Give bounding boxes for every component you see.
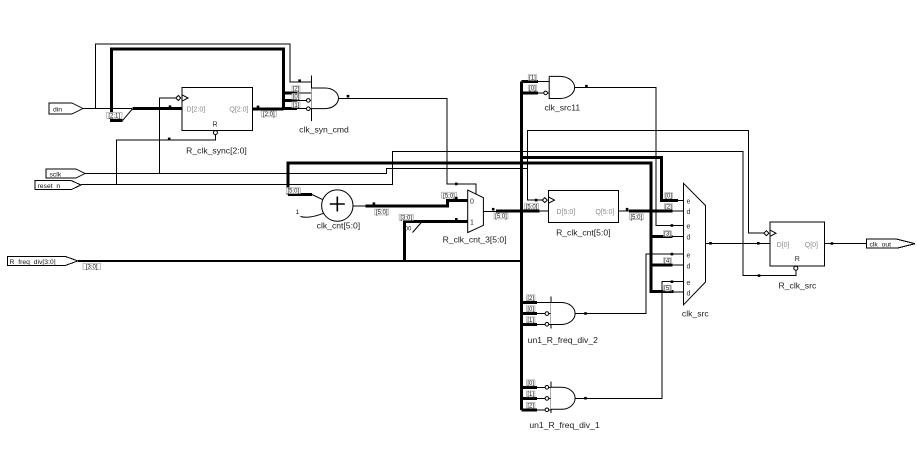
wire splitter bit taps into clk_syn_cmd bbox=[297, 93, 311, 109]
wire sclk branch to R_clk_src clock bbox=[527, 130, 764, 233]
svg-text:clk_cnt[5:0]: clk_cnt[5:0] bbox=[317, 221, 360, 231]
input port reset_n bbox=[35, 181, 81, 190]
AND gate clk_src11 bbox=[544, 76, 581, 112]
wire zero-pad slash at R_freq_div bbox=[413, 221, 424, 233]
tag [2] clk_syn_cmd input bbox=[292, 86, 300, 93]
tag [5:0] mux input 0 bbox=[442, 192, 457, 199]
wire R_clk_cnt Q thin stub bbox=[619, 210, 630, 212]
svg-text:[0]: [0] bbox=[293, 95, 300, 101]
svg-text:clk_out: clk_out bbox=[870, 241, 892, 248]
svg-text:reset_n: reset_n bbox=[38, 183, 61, 190]
flip-flop R_clk_sync[2:0] bbox=[176, 88, 253, 156]
bus taps un1_R_freq_div_1 bbox=[522, 387, 538, 410]
svg-text:d: d bbox=[687, 235, 691, 242]
tag [3:0] at R_freq_div port bbox=[83, 263, 101, 270]
wire clk_src11 output to clk_src e2 bbox=[575, 87, 684, 225]
wire reset branch to R_clk_sync R pin bbox=[116, 135, 215, 185]
tag [5:0] R_clk_cnt Q bbox=[629, 214, 643, 221]
svg-text:R: R bbox=[795, 256, 800, 263]
bus R_clk_cnt feedback to adder and clk_src taps bbox=[288, 163, 674, 292]
svg-text:d: d bbox=[687, 263, 691, 270]
tag [4] clk_src d3 bbox=[664, 258, 672, 265]
wire un1_R_freq_div_1 output to clk_src e4 bbox=[575, 282, 683, 399]
bus D input R_clk_sync bbox=[132, 107, 182, 110]
svg-text:[2]: [2] bbox=[527, 403, 534, 409]
bus mux output to R_clk_cnt D bbox=[496, 210, 539, 213]
wire reset_n main run to R_clk_src R pin bbox=[81, 152, 796, 276]
tag [5:0] mux output bbox=[494, 213, 508, 220]
svg-text:[3]: [3] bbox=[664, 232, 671, 238]
input port din bbox=[49, 103, 83, 114]
input port R_freq_div[3:0] bbox=[8, 256, 78, 266]
wire mux R_clk_cnt_3 output thin stub bbox=[483, 210, 496, 212]
svg-text:e: e bbox=[687, 252, 691, 259]
wire R_clk_src Q to clk_out bbox=[824, 243, 866, 245]
tag [5:0] adder input bbox=[286, 188, 300, 195]
bus R_freq_div riser to mux input 1 bbox=[405, 222, 468, 261]
wire bus joiner slash at din bbox=[123, 109, 133, 121]
wire clk_src11 tap thin stubs bbox=[538, 82, 549, 93]
svg-text:D[5:0]: D[5:0] bbox=[557, 209, 576, 216]
adder clk_cnt[5:0] bbox=[296, 190, 361, 231]
wire adder input slant bbox=[312, 195, 323, 200]
tag [0] un1_R_freq_div_2 bbox=[527, 306, 535, 313]
junction ticks bbox=[168, 79, 833, 399]
AND gate un1_R_freq_div_2 bbox=[528, 297, 598, 346]
svg-text:R_clk_src: R_clk_src bbox=[779, 281, 817, 291]
tag [5:0] R_clk_cnt D bbox=[525, 203, 539, 210]
svg-text:[2]: [2] bbox=[293, 87, 300, 93]
mux clk_src bbox=[682, 183, 709, 318]
svg-text:[2]: [2] bbox=[527, 296, 534, 302]
svg-text:R: R bbox=[213, 122, 218, 129]
wire din to bus joiner bbox=[83, 108, 132, 110]
svg-text:R_clk_cnt_3[5:0]: R_clk_cnt_3[5:0] bbox=[443, 234, 507, 244]
tag [0] un1_R_freq_div_1 bbox=[527, 380, 535, 387]
svg-text:[2:1]: [2:1] bbox=[108, 114, 120, 120]
svg-text:un1_R_freq_div_1: un1_R_freq_div_1 bbox=[529, 420, 599, 430]
svg-text:[5:0]: [5:0] bbox=[630, 215, 642, 221]
wire adder output thin stub bbox=[353, 205, 366, 207]
svg-text:[5:0]: [5:0] bbox=[287, 189, 299, 195]
svg-text:[5:0]: [5:0] bbox=[495, 214, 507, 220]
AND gate un1_R_freq_div_1 bbox=[529, 381, 599, 430]
svg-text:e: e bbox=[687, 280, 691, 287]
wire un1_R_freq_div_2 tap thin stubs bbox=[537, 303, 551, 325]
svg-text:[1]: [1] bbox=[527, 392, 534, 398]
svg-text:[0]: [0] bbox=[527, 381, 534, 387]
tag [2:1] on R_clk_sync D bbox=[107, 113, 123, 120]
svg-text:e: e bbox=[687, 199, 691, 206]
svg-text:clk_src11: clk_src11 bbox=[544, 103, 580, 113]
wire clk_syn_cmd output to mux select bbox=[339, 98, 476, 194]
svg-text:Q[5:0]: Q[5:0] bbox=[595, 209, 614, 216]
svg-text:[1]: [1] bbox=[293, 103, 300, 109]
svg-text:[2:0]: [2:0] bbox=[263, 112, 275, 118]
tag [0] clk_src e1 bbox=[665, 193, 673, 200]
svg-text:[1]: [1] bbox=[527, 318, 534, 324]
svg-text:1: 1 bbox=[296, 209, 300, 216]
svg-text:sclk: sclk bbox=[50, 171, 62, 178]
svg-text:[0]: [0] bbox=[529, 86, 536, 92]
svg-text:R_clk_cnt[5:0]: R_clk_cnt[5:0] bbox=[556, 227, 610, 237]
flip-flop R_clk_src bbox=[764, 222, 825, 291]
svg-text:1: 1 bbox=[470, 220, 474, 227]
bus adder output to mux input 0 bbox=[366, 200, 468, 206]
mux R_clk_cnt_3[5:0] bbox=[443, 190, 507, 244]
wire sclk riser to R_clk_sync clock bbox=[160, 98, 176, 174]
svg-text:un1_R_freq_div_2: un1_R_freq_div_2 bbox=[528, 335, 598, 345]
svg-text:[0]: [0] bbox=[527, 307, 534, 313]
svg-text:[5]: [5] bbox=[664, 286, 671, 292]
bus taps clk_src d2 d3 bbox=[651, 236, 673, 265]
tag [1] un1_R_freq_div_1 bbox=[527, 391, 535, 398]
svg-text:Q[2:0]: Q[2:0] bbox=[229, 107, 248, 114]
tag [3:0] at riser bbox=[399, 214, 413, 221]
wire clk_src data tap thin stubs bbox=[672, 200, 683, 292]
svg-text:[5:0]: [5:0] bbox=[526, 204, 538, 210]
tag [0] clk_src11 input bbox=[528, 85, 536, 92]
tag [2] un1_R_freq_div_2 bbox=[527, 295, 535, 302]
svg-text:D[2:0]: D[2:0] bbox=[187, 107, 206, 114]
wire sclk main run bbox=[85, 168, 527, 173]
tag [1] un1_R_freq_div_2 bbox=[527, 317, 535, 324]
tag [2] un1_R_freq_div_1 bbox=[527, 402, 535, 409]
bus branch to clk_src e1 tap bbox=[522, 157, 679, 200]
svg-text:[3:0]: [3:0] bbox=[400, 215, 412, 221]
svg-text:e: e bbox=[687, 224, 691, 231]
bus taps un1_R_freq_div_2 bbox=[522, 303, 538, 325]
svg-text:Q[0]: Q[0] bbox=[805, 242, 818, 249]
output port clk_out bbox=[867, 239, 915, 248]
tag [5] clk_src d4 bbox=[664, 285, 672, 292]
tag [1] clk_syn_cmd input bbox=[292, 102, 300, 109]
svg-text:[5:0]: [5:0] bbox=[376, 210, 388, 216]
wire R_clk_cnt D thin stub bbox=[539, 210, 548, 212]
svg-text:R_clk_sync[2:0]: R_clk_sync[2:0] bbox=[186, 146, 247, 156]
bus R_freq_div main run bbox=[78, 260, 522, 262]
svg-text:din: din bbox=[53, 107, 62, 114]
wire constant 1 into adder bbox=[301, 213, 324, 217]
tag [5:0] adder output bbox=[375, 209, 389, 216]
bus taps clk_src11 bbox=[522, 82, 538, 93]
bus splitter taps clk_syn_cmd bbox=[284, 93, 297, 109]
tag [2:0] on R_clk_sync Q bbox=[261, 111, 276, 118]
bus Q output R_clk_sync bbox=[253, 107, 284, 110]
bus feedback loop R_clk_sync bbox=[112, 49, 284, 121]
svg-text:d: d bbox=[687, 291, 691, 298]
input port sclk bbox=[46, 169, 85, 178]
svg-text:[2]: [2] bbox=[665, 205, 672, 211]
AND gate clk_syn_cmd bbox=[299, 76, 349, 135]
wire clk_src output to R_clk_src D bbox=[706, 242, 771, 244]
svg-text:clk_src: clk_src bbox=[682, 309, 709, 319]
flip-flop R_clk_cnt[5:0] bbox=[542, 190, 618, 237]
tag [2] clk_src d1 bbox=[665, 204, 673, 211]
wire un1_R_freq_div_2 output to clk_src e3 bbox=[575, 254, 683, 313]
svg-text:0: 0 bbox=[470, 198, 474, 205]
svg-text:[4]: [4] bbox=[664, 259, 671, 265]
tag [1] clk_src11 input bbox=[528, 75, 536, 82]
svg-text:00: 00 bbox=[405, 227, 412, 233]
tag [3] clk_src d2 bbox=[664, 231, 672, 238]
svg-text:[1]: [1] bbox=[529, 76, 536, 82]
wire un1_R_freq_div_1 tap thin stubs bbox=[537, 387, 551, 410]
wire din branch loop to clk_syn_cmd input bbox=[96, 44, 312, 108]
svg-text:D[0]: D[0] bbox=[777, 242, 790, 249]
svg-text:[3:0]: [3:0] bbox=[86, 264, 98, 270]
wire sclk riser to R_clk_cnt clock bbox=[527, 168, 542, 200]
bus vertical R_clk_cnt_3 net bbox=[520, 82, 523, 410]
bus adder input horizontal bbox=[288, 193, 312, 196]
svg-text:R_freq_div[3:0]: R_freq_div[3:0] bbox=[10, 259, 56, 266]
bus R_clk_cnt Q to clk_src d1 bbox=[629, 210, 672, 213]
svg-text:clk_syn_cmd: clk_syn_cmd bbox=[299, 125, 349, 135]
svg-text:d: d bbox=[687, 209, 691, 216]
tag [0] clk_syn_cmd input bbox=[292, 94, 300, 101]
svg-text:[0]: [0] bbox=[665, 194, 672, 200]
svg-text:[5:0]: [5:0] bbox=[443, 193, 455, 199]
